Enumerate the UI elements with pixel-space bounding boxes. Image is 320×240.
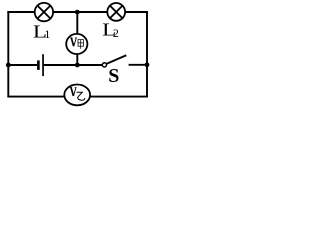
svg-text:S: S: [108, 65, 119, 87]
lamp L1: [35, 3, 53, 21]
wire middle row: left rail to battery: [8, 64, 37, 66]
svg-text:1: 1: [44, 27, 50, 41]
battery cell: short thick negative plate: [37, 60, 40, 70]
wire top horizontal: [7, 11, 148, 13]
junction node: left rail / battery branch: [6, 63, 11, 68]
lamp L2: [107, 3, 125, 21]
junction node: right rail / switch wire: [145, 62, 150, 67]
junction node: top wire / V-jia branch: [75, 10, 80, 15]
switch S: lever arm: [106, 55, 126, 64]
wire middle row: switch to right rail: [129, 64, 147, 66]
battery cell: long thin positive plate: [42, 54, 44, 76]
wire right rail: [146, 11, 148, 97]
wire middle row: battery to switch: [44, 64, 103, 66]
wire left rail: [7, 11, 9, 97]
wire voltmeter V-jia branch vertical: [76, 12, 78, 65]
svg-text:2: 2: [113, 26, 119, 40]
voltmeter V-jia (V甲): [66, 34, 87, 54]
voltmeter V-yi (V乙): [64, 85, 90, 106]
switch S: left terminal pivot circle: [102, 63, 106, 67]
junction node: middle wire / V-jia branch: [75, 63, 80, 68]
wire bottom horizontal: [7, 96, 148, 98]
